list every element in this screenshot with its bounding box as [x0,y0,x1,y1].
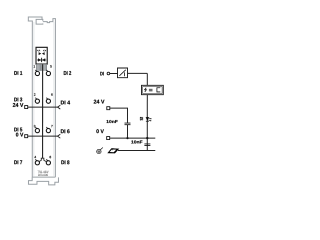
part number 750-430/023-000 [38,171,49,173]
functional earth symbol [97,147,103,153]
label DI 5 [14,128,22,132]
junction dot 24V cap to 0V [126,137,128,139]
wire 24V right [110,108,128,123]
terminal clamp circles row2 [35,99,50,103]
pin number 8 [50,156,52,158]
module top hook + right edge [43,19,56,178]
filter symbol diagonal [119,70,125,76]
24V square terminal left [25,106,28,109]
bus vertical wire [146,73,148,150]
diode pair symbol inside box [38,58,45,61]
pin number 6 [51,93,53,95]
pin number 4 [34,156,36,158]
jumper between terminals 4 and 8 [39,158,46,161]
label DI input [100,72,103,76]
filter symbol tick [123,72,125,76]
FE line [118,150,155,152]
label DI 4 [61,101,70,105]
center field wire [42,64,44,158]
wire 0V right [110,137,156,139]
label DI 8 [61,160,69,164]
label DI LED [140,117,143,120]
wire 0V row3 [28,135,58,137]
isolation box U3 outer [142,85,164,94]
slot ticks row2 [35,98,48,100]
wire bundle below box [36,64,47,71]
label DI 2 [64,71,71,75]
isolation box inner border [143,87,162,94]
LED emission arrows [148,118,151,121]
label DI 7 [14,160,22,164]
label 24V left [13,103,24,107]
capacitor C1 lower lead [126,125,128,138]
junction dot bus to 0V [146,137,148,139]
isolation glyph bracket [157,88,160,92]
filter box U2 [118,68,128,78]
module bottom feet [28,177,58,185]
module top C notch [36,19,43,24]
module inner wall lines [34,22,54,177]
label DI 6 [61,129,70,133]
label DI 3 [14,98,22,102]
pin number 1 [34,65,35,67]
label 0V left [16,133,23,137]
module bottom edge [32,176,55,178]
DI input terminal circle [107,72,110,75]
label 10nF C1 [107,120,118,123]
0V square terminal right [107,137,110,140]
LED symbols inside box [39,52,45,55]
wire DI to filter [110,73,118,75]
24V square terminal right [107,107,110,110]
arrow to DI 4 [58,105,61,109]
label DI 1 [14,71,22,75]
label 0V right [96,129,103,133]
LED D1 on bus [146,117,149,120]
terminal clamp circles row4 [35,161,50,165]
DIN rail contact symbol [107,148,119,153]
isolation glyph equals [149,89,153,91]
0V square terminal left [25,135,28,138]
isolation glyph lightning [145,88,147,92]
pin number 5 [50,65,52,67]
label 24V right [94,100,105,104]
electronics box U1 [36,47,47,64]
terminal clamp circles row1 [35,71,50,75]
arrow to DI 6 [58,134,61,138]
capacitor C1 plates [124,123,130,125]
terminal clamp circles row3 [35,128,50,132]
slot ticks row4 [35,159,48,161]
pin number 2 [34,93,36,95]
pin number 3 [34,125,36,127]
pin number 7 [51,125,53,127]
label 10nF C2 [131,140,142,143]
wire filter to bus [128,72,148,74]
capacitor C2 plates [144,144,150,146]
module top profile + left edge [28,17,58,185]
slot ticks row1 [35,70,48,72]
slot ticks row3 [35,127,48,129]
wire 24V row2 [28,106,58,108]
